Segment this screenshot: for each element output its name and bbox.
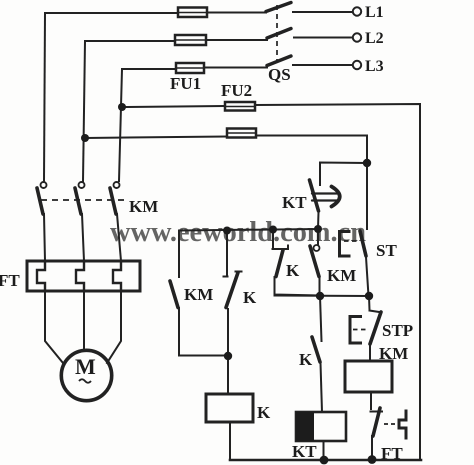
svg-text:FT: FT: [0, 271, 20, 290]
svg-text:QS: QS: [268, 65, 291, 84]
svg-text:FU2: FU2: [221, 81, 252, 100]
svg-text:www.eeworld.com.cn: www.eeworld.com.cn: [110, 216, 366, 248]
svg-text:L2: L2: [365, 30, 384, 47]
svg-text:K: K: [257, 403, 271, 422]
svg-text:KM: KM: [379, 344, 408, 363]
svg-text:M: M: [75, 354, 96, 379]
svg-text:L3: L3: [365, 58, 384, 75]
svg-text:ST: ST: [376, 241, 397, 260]
svg-text:STP: STP: [382, 321, 413, 340]
svg-text:K: K: [299, 350, 313, 369]
svg-text:FT: FT: [381, 444, 403, 463]
svg-text:K: K: [286, 261, 300, 280]
svg-text:KM: KM: [184, 285, 213, 304]
svg-text:K: K: [243, 288, 257, 307]
svg-text:FU1: FU1: [170, 74, 201, 93]
svg-text:KT: KT: [292, 442, 317, 461]
svg-text:KM: KM: [327, 266, 356, 285]
svg-text:KM: KM: [129, 197, 158, 216]
svg-text:L1: L1: [365, 4, 384, 21]
svg-text:KT: KT: [282, 193, 307, 212]
